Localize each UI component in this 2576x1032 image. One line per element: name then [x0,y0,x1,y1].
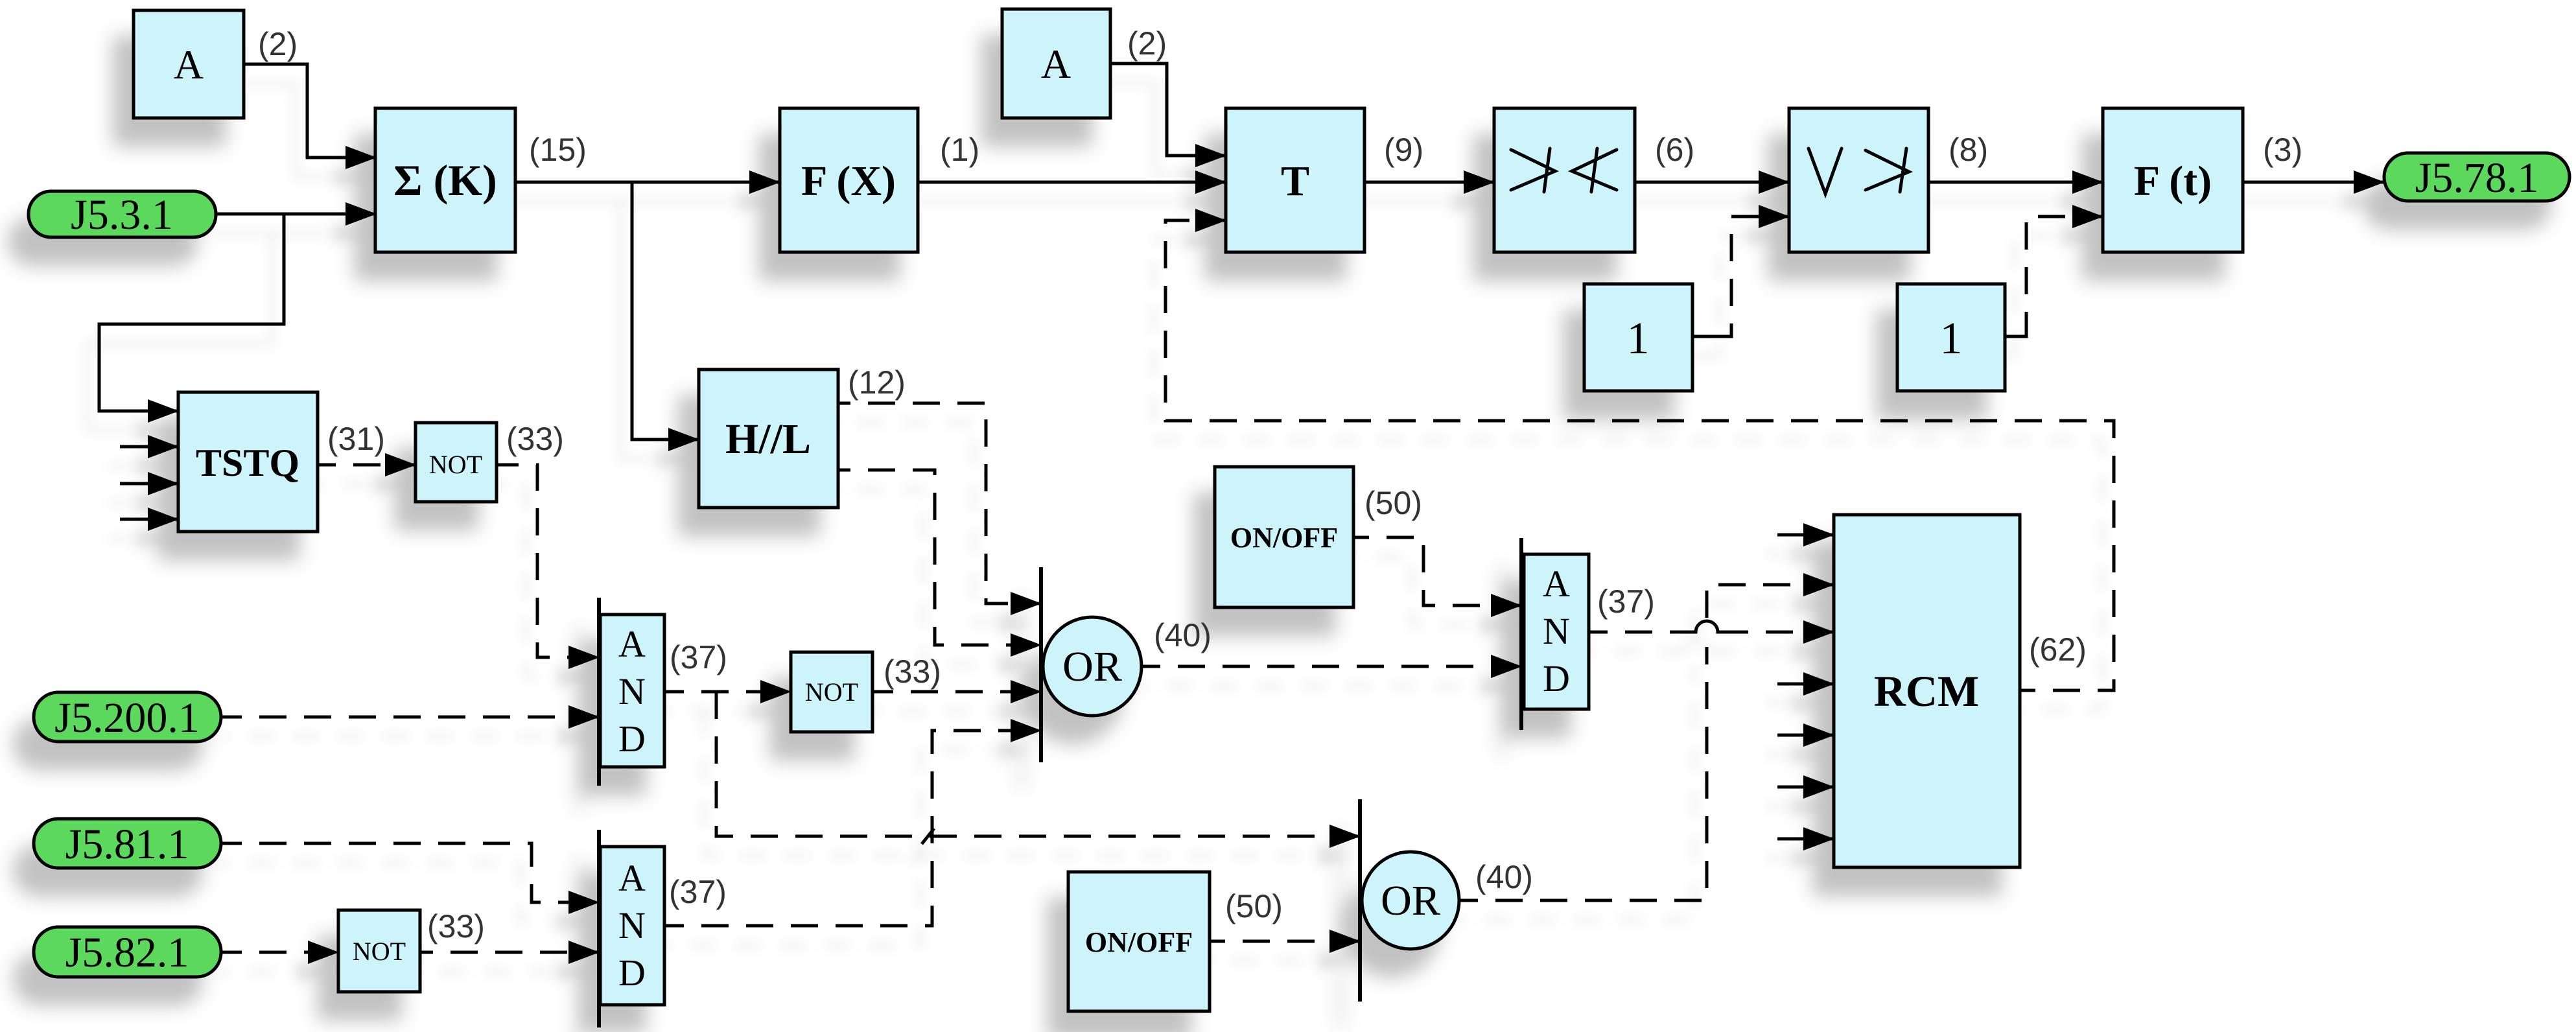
block AND3 [600,847,664,1005]
svg-text:J5.81.1: J5.81.1 [65,821,189,868]
wire dashed AND2 (37) to RCM input3 part1 [1608,631,1692,634]
svg-text:(33): (33) [884,653,941,690]
wire junction J5.3.1 down to TSTQ [99,214,284,411]
wire dashed H//L (12) to OR1 input1 [850,403,1041,604]
svg-text:F (t): F (t) [2134,158,2212,205]
svg-text:ON/OFF: ON/OFF [1085,926,1193,958]
wire NOT1 output stub [497,463,519,467]
wire SUM (15) to F(X) [515,181,780,184]
block OR1 circle [1043,617,1142,716]
svg-text:H//L: H//L [725,416,811,463]
wire J5.82.1 output stub [221,951,242,954]
node J5.200.1 [34,692,221,742]
wire jump mark on OR2 branch [922,828,934,844]
wire ON/OFF2 output stub [1210,940,1225,943]
svg-text:OR: OR [1381,877,1440,924]
svg-text:(37): (37) [670,639,727,675]
wire dashed AND3 (37) up to OR1 input4 [684,731,1041,926]
node J5.81.1 [34,819,221,868]
wire dashed RCM (62) feedback to T input3 [1165,220,2114,690]
svg-text:J5.3.1: J5.3.1 [71,191,173,239]
wire stub block 1a output [1692,335,1717,338]
wire RCM input stub 7 [1777,838,1834,841]
wire dashed ON/OFF2 (50) to OR2 input2 [1225,940,1360,943]
svg-text:(1): (1) [940,132,979,168]
wire TSTQ input stub 3 [120,482,178,486]
svg-text:(12): (12) [848,364,906,401]
svg-text:(37): (37) [669,874,727,910]
svg-text:J5.78.1: J5.78.1 [2415,154,2539,202]
wire J5.3.1 to SUM [216,213,376,216]
wire A2 to T [1110,64,1226,156]
svg-text:(8): (8) [1949,132,1988,168]
node J5.82.1 [34,927,221,977]
wire ON/OFF1 output stub [1353,536,1369,539]
wire OR2 output stub [1459,899,1478,902]
block SUM K [375,108,515,252]
wire T (9) to deadband [1364,181,1494,184]
wire dashed NOT2 (33) to OR1 input3 [893,690,1041,694]
wire RCM input stub 6 [1777,786,1834,789]
wire dashed TSTQ (31) to NOT1 [336,463,416,467]
svg-text:J5.200.1: J5.200.1 [54,694,200,742]
wire RCM input stub 5 [1777,734,1834,737]
wire H//L lower output stub [838,469,850,472]
svg-text:A: A [1543,563,1570,605]
wire RCM input stub 1 [1777,534,1834,537]
deadband glyph [1511,148,1617,192]
svg-text:OR: OR [1062,643,1122,690]
input bar AND1 [597,598,601,786]
wire dashed block 1b to F(t) [2024,217,2103,336]
wire F(X) (1) to T [918,181,1226,184]
wire dashed AND2 (37) to RCM input3 part2 [1721,631,1834,634]
block T [1226,108,1364,252]
wire dashed J5.200.1 to AND1 input2 [242,716,599,719]
wire rate limiter (8) to F(t) [1928,181,2103,184]
wire dashed OR2 to RCM input2 (upper part past hop) [1707,585,1834,618]
wire dashed NOT3 (33) to AND3 input2 [433,951,599,954]
svg-text:D: D [1543,657,1570,699]
block AND2 [1524,554,1589,709]
svg-text:Σ (K): Σ (K) [393,156,497,205]
svg-text:NOT: NOT [429,450,482,479]
block TSTQ [178,392,318,532]
svg-text:(9): (9) [1384,132,1423,168]
input bar OR1 [1039,567,1043,762]
svg-text:1: 1 [1940,314,1963,364]
block NOT3 [338,910,420,992]
svg-text:(6): (6) [1655,132,1694,168]
wire AND2 output stub [1589,631,1608,634]
wire dashed OR2 (40) up to RCM input2 (lower part) [1478,647,1707,900]
wire F(t) (3) to J5.78.1 [2243,181,2384,184]
wire OR1 output stub [1142,665,1160,668]
block const 1b [1897,284,2005,391]
wire hop over vertical on AND2 line [1684,621,1729,632]
input bar AND2 [1519,538,1523,730]
block OR2 circle [1362,852,1459,949]
wire TSTQ input stub 4 [120,518,178,521]
wire RCM output stub (62) [2020,689,2035,692]
wire dashed OR1 (40) to AND2 input2 [1160,665,1521,668]
block H//L [699,369,838,508]
svg-text:(33): (33) [427,908,485,944]
svg-text:(37): (37) [1597,583,1655,620]
node J5.78.1 [2384,153,2570,201]
svg-text:TSTQ: TSTQ [196,441,299,484]
svg-text:RCM: RCM [1874,666,1979,716]
svg-text:A: A [174,41,204,88]
block NOT2 [791,652,872,732]
node J5.3.1 [29,191,216,237]
signal number labels [258,25,2302,944]
wire NOT3 output stub [420,951,433,954]
wire A1 to SUM [244,64,376,158]
svg-text:(2): (2) [258,26,298,62]
wire TSTQ input stub 2 [120,445,178,449]
svg-text:A: A [1041,41,1071,87]
wire AND1 output stub [664,690,684,694]
wire dashed H//L lower to OR1 input2 [850,470,1041,645]
wire dashed ON/OFF1 (50) to AND2 input1 [1369,537,1521,605]
svg-text:(40): (40) [1475,859,1533,895]
input bar AND3 [597,830,601,1027]
svg-text:D: D [618,718,646,760]
svg-text:ON/OFF: ON/OFF [1230,522,1338,554]
svg-text:(2): (2) [1127,25,1167,62]
wire TSTQ output stub [318,463,336,467]
block A1 [134,10,244,118]
wire J5.81.1 output stub [221,842,242,845]
svg-text:(62): (62) [2029,631,2087,668]
wire deadband (6) to rate limiter [1635,181,1789,184]
block ON/OFF1 [1215,467,1353,607]
svg-text:A: A [618,857,646,899]
svg-text:NOT: NOT [805,677,858,707]
wire NOT2 output stub [872,690,893,694]
block deadband [1494,108,1635,252]
block ON/OFF2 [1068,872,1210,1011]
wire AND3 output stub [664,924,684,928]
block F(X) [780,108,918,252]
svg-text:D: D [618,952,646,994]
svg-text:(40): (40) [1154,617,1212,653]
block const 1a [1584,284,1692,391]
svg-text:(31): (31) [327,421,385,457]
svg-text:A: A [618,623,646,665]
svg-text:T: T [1281,158,1309,205]
block NOT1 [416,423,497,502]
wire dashed block 1a to rate limiter [1717,217,1789,336]
svg-text:(15): (15) [529,132,587,168]
svg-text:1: 1 [1627,314,1650,364]
svg-text:N: N [1543,610,1570,652]
wire H//L output stub (12) [838,402,850,405]
svg-text:(3): (3) [2263,132,2302,168]
block A2 [1002,9,1110,118]
wire J5.200.1 output stub [221,716,242,719]
wire branch (15) down to H//L [632,182,699,440]
wires group [99,64,2384,952]
svg-text:NOT: NOT [353,937,406,966]
svg-text:J5.82.1: J5.82.1 [65,929,189,976]
block F(t) [2103,108,2243,252]
rate limiter glyph [1809,148,1909,194]
svg-text:N: N [618,904,646,946]
wire stub block 1b output [2005,335,2024,338]
input bar OR2 [1358,799,1362,1002]
svg-text:(33): (33) [506,421,564,457]
block RCM [1834,515,2020,867]
block rate limiter [1789,108,1928,252]
wire dashed AND1 branch down to OR2 input1 [716,692,1360,836]
wire dashed NOT1 (33) to AND1 input1 [519,465,599,657]
wire RCM input stub 4 [1777,683,1834,686]
svg-text:(50): (50) [1364,485,1422,521]
wire dashed J5.82.1 to NOT3 [242,951,338,954]
svg-text:(50): (50) [1225,888,1283,924]
svg-text:F (X): F (X) [801,158,896,205]
wire dashed J5.81.1 to AND3 input1 [242,843,599,902]
block AND1 [600,615,664,767]
wire dashed AND1 (37) to NOT2 [684,690,791,694]
svg-text:N: N [618,670,646,712]
